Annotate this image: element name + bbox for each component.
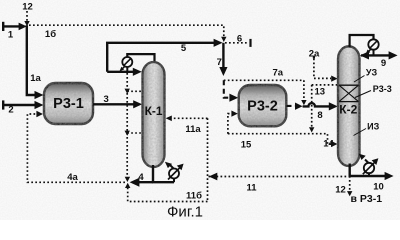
wire stream 5 overhead К-1	[107, 39, 222, 72]
wire stream 8 solid into К-2	[303, 102, 338, 110]
wire stream 4 К-1 bottoms	[130, 165, 174, 187]
wire stream 7а dotted right	[224, 79, 304, 81]
pump/condenser circle К-2 overhead	[366, 39, 379, 54]
wire line 1 horizontal	[2, 22, 27, 31]
column К-2	[338, 46, 360, 166]
wire stream 2 into Р3-1	[2, 100, 44, 109]
wire stream 15 dotted return into Р3-2	[228, 111, 238, 134]
wire stream 11 dotted horizontal with arrow	[209, 173, 350, 181]
wire stream 1б dotted to right then down	[29, 25, 227, 42]
wire stream 3 Р3-1 to К-1	[93, 100, 142, 108]
wire reflux into К-1	[107, 68, 142, 76]
reaction zone Р3-3 in К-2	[339, 85, 359, 101]
wire stream 1а solid down then right into Р3-1	[27, 25, 44, 99]
wire Р3-2 outlet dashed	[287, 103, 303, 110]
wire К-1 top stub to condenser	[127, 54, 154, 72]
wire stream 15/14 dotted bottom horizontal	[228, 134, 331, 144]
wire К-1 side-draw stub lower	[127, 132, 142, 134]
reactor Р3-2	[239, 85, 287, 126]
wire stream 11б dotted bottom	[125, 183, 208, 202]
wire stream 12 bottom dotted	[347, 176, 352, 196]
wire stream 10 К-2 bottoms	[350, 164, 394, 181]
wire stream 7 solid down	[219, 43, 227, 76]
pump К-2 bottoms	[359, 154, 379, 176]
wire К-1 side-draw vertical dotted	[125, 73, 131, 182]
wire stream 13 side-draw from К-2 with hop over line 8	[309, 85, 338, 133]
wire stream 11 dotted vertical	[207, 118, 209, 201]
wire stream 11а dotted into К-1	[166, 116, 208, 122]
wire К-1 side-draw stub upper	[127, 90, 142, 92]
column К-1	[143, 62, 165, 167]
callout line УЗ	[354, 76, 365, 83]
wire stream 14 arrow into К-2	[331, 141, 338, 147]
wire К-2 top stub to condenser	[350, 35, 374, 55]
callout line Р3-3	[355, 91, 371, 98]
wire stream 4а dotted: junction to Р3-1	[27, 111, 125, 183]
pump К-1 bottoms	[165, 162, 184, 182]
wire reflux into К-2 + stream 9 out	[360, 51, 398, 59]
pump/condenser circle К-1 overhead	[119, 57, 132, 71]
wire stream 6 dotted	[225, 39, 252, 47]
wire stream 2а dotted down then into К-2	[313, 56, 338, 82]
wire stream 12 top dotted	[24, 11, 29, 26]
wire stream 13 branch down to line 8	[301, 80, 306, 105]
wire stream 7 dashed into Р3-2	[224, 80, 238, 102]
callout line ИЗ	[354, 129, 367, 136]
reactor Р3-1	[44, 83, 93, 124]
